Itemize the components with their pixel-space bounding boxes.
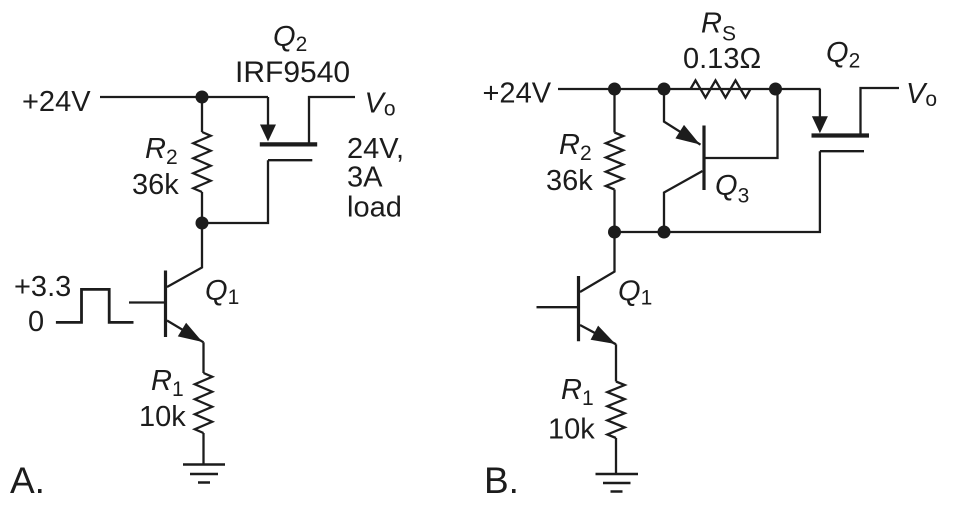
node: junction R2-A bottom / Q1-A collector / Q2-A gate	[196, 217, 209, 230]
svg-text:0: 0	[28, 306, 44, 338]
transistor Q1 circuit B : base bar	[577, 276, 580, 341]
resistor RS (0.13ohm) circuit B	[691, 80, 751, 97]
transistor Q2 (IRF9540 P-MOSFET) circuit A : gate line	[268, 159, 312, 161]
svg-text:Vo: Vo	[365, 88, 396, 121]
svg-text:R1: R1	[561, 374, 594, 410]
svg-text:36k: 36k	[546, 165, 593, 197]
wire: junction to Q2-A gate	[202, 160, 268, 223]
svg-text:24V,: 24V,	[347, 133, 404, 165]
resistor R1 (10k) circuit B	[607, 382, 624, 439]
transistor Q2 circuit A : drain arrow	[260, 125, 276, 142]
wire: Q1-B base stub	[537, 306, 578, 308]
svg-text:Q2: Q2	[273, 21, 307, 56]
node: junction bottom net at R2-B	[608, 226, 621, 239]
svg-text:IRF9540: IRF9540	[235, 56, 350, 89]
transistor Q3 circuit B : base bar	[702, 126, 705, 191]
node: junction R2-A top on +24V rail	[196, 91, 209, 104]
svg-text:3A: 3A	[347, 162, 383, 194]
transistor Q2 circuit B : gate line	[820, 150, 864, 152]
wire: Q3 base to RS right junction	[706, 89, 778, 158]
svg-text:R2: R2	[145, 133, 178, 169]
wire: R1-B bottom to ground	[615, 438, 617, 474]
wire: Q2-B drain drop from rail	[819, 89, 821, 119]
svg-text:10k: 10k	[548, 414, 595, 446]
svg-text:load: load	[347, 192, 402, 224]
transistor Q2 (P-MOSFET) circuit B : drain arrow	[812, 116, 828, 133]
transistor Q3 (PNP) circuit B : emitter arrow pointing to bar	[675, 125, 700, 145]
ground symbol circuit B	[596, 474, 639, 492]
svg-text:Q1: Q1	[205, 275, 239, 309]
transistor Q2 circuit A : channel bar	[260, 142, 317, 146]
wire: +24V rail A	[100, 96, 268, 98]
wire: Q3 collector to bottom net	[664, 171, 703, 232]
wire: Q2-B gate down to bottom net	[615, 151, 820, 232]
svg-text:A.: A.	[10, 460, 45, 501]
svg-text:B.: B.	[484, 460, 519, 501]
svg-text:+24V: +24V	[22, 86, 91, 118]
svg-text:RS: RS	[701, 8, 736, 46]
svg-text:10k: 10k	[139, 401, 186, 433]
wire: Q1-B collector to bottom net	[580, 232, 615, 292]
svg-text:36k: 36k	[132, 169, 179, 201]
wire: Q1-A collector to junction	[167, 223, 202, 287]
wire: +24V rail B	[558, 88, 821, 90]
resistor R2 (36k) circuit A	[193, 132, 210, 192]
svg-text:0.13Ω: 0.13Ω	[683, 43, 761, 75]
wire: Q3 emitter drop from junction	[664, 89, 701, 145]
transistor Q2 circuit B : channel bar	[812, 133, 870, 137]
svg-text:Q3: Q3	[715, 170, 749, 208]
resistor R1 (10k) circuit A	[195, 373, 212, 433]
transistor Q1 circuit A : emitter with arrow	[167, 321, 204, 343]
node: junction R2-B top on +24V rail	[608, 83, 621, 96]
input pulse waveform +3.3/0 circuit A	[56, 289, 134, 322]
wire: R2-B top lead	[613, 89, 615, 133]
transistor Q1 circuit A : base bar	[164, 271, 167, 338]
svg-text:Vo: Vo	[906, 78, 937, 111]
resistor R2 (36k) circuit B	[606, 133, 623, 190]
svg-text:R2: R2	[559, 129, 592, 165]
transistor Q1 circuit B : emitter with arrow	[580, 325, 616, 344]
node: junction bottom net at Q3 collector	[658, 226, 671, 239]
wire: Q2-B source to Vo	[861, 88, 900, 136]
wire: Q2-A drain drop from rail	[267, 97, 269, 127]
ground symbol circuit A	[183, 465, 225, 483]
wire: R1-A bottom to ground	[202, 433, 204, 465]
wire: Q1-A emitter to R1-A	[202, 342, 204, 373]
svg-text:+3.3: +3.3	[14, 271, 71, 303]
wire: R2-B bottom lead	[613, 190, 615, 233]
wire: Q1-A base lead	[129, 301, 164, 303]
wire: Q2-A source to Vo	[309, 97, 355, 144]
wire: R2-A bottom lead	[201, 192, 203, 223]
wire: R2-A top lead	[201, 97, 203, 132]
svg-text:Q1: Q1	[618, 276, 652, 310]
svg-text:R1: R1	[151, 365, 184, 401]
node: junction RS right / Q3 base	[769, 83, 782, 96]
svg-text:+24V: +24V	[483, 78, 552, 110]
node: junction RS left / Q3 emitter	[658, 83, 671, 96]
svg-text:Q2: Q2	[826, 37, 860, 73]
wire: Q1-B emitter to R1-B	[615, 344, 617, 381]
